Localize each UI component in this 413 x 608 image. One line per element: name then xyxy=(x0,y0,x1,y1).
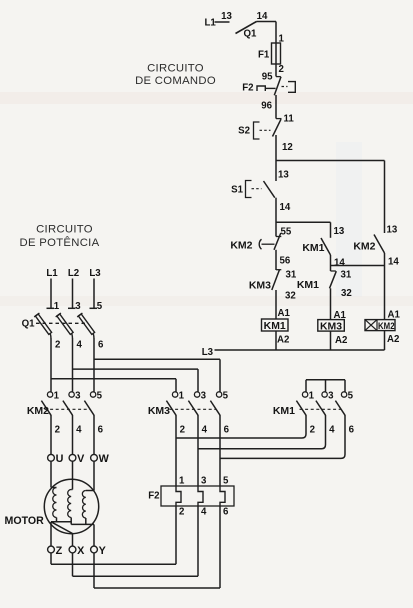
svg-text:32: 32 xyxy=(341,288,352,299)
svg-text:11: 11 xyxy=(284,114,295,125)
svg-text:13: 13 xyxy=(278,170,289,181)
svg-text:13: 13 xyxy=(334,226,345,237)
svg-text:5: 5 xyxy=(97,391,103,402)
svg-text:3: 3 xyxy=(75,301,81,312)
svg-text:KM3: KM3 xyxy=(148,405,170,417)
svg-text:14: 14 xyxy=(280,202,291,213)
svg-text:KM2: KM2 xyxy=(27,405,49,417)
svg-text:L3: L3 xyxy=(89,268,101,279)
svg-text:V: V xyxy=(77,453,85,465)
svg-text:4: 4 xyxy=(201,507,207,518)
svg-text:1: 1 xyxy=(179,476,185,487)
svg-text:2: 2 xyxy=(279,64,284,75)
svg-text:4: 4 xyxy=(76,425,82,436)
svg-text:56: 56 xyxy=(280,256,291,267)
svg-text:96: 96 xyxy=(261,101,272,112)
svg-text:4: 4 xyxy=(202,425,208,436)
svg-text:1: 1 xyxy=(54,391,60,402)
svg-text:A1: A1 xyxy=(388,310,401,321)
svg-text:1: 1 xyxy=(179,391,185,402)
svg-text:X: X xyxy=(77,545,85,557)
svg-text:5: 5 xyxy=(348,391,354,402)
svg-text:A1: A1 xyxy=(278,308,291,319)
svg-text:L3: L3 xyxy=(202,347,214,358)
svg-text:12: 12 xyxy=(282,142,293,153)
svg-text:6: 6 xyxy=(224,425,230,436)
svg-text:6: 6 xyxy=(349,425,355,436)
svg-text:14: 14 xyxy=(388,257,399,268)
svg-text:2: 2 xyxy=(55,340,60,351)
svg-text:CIRCUITO: CIRCUITO xyxy=(36,224,93,236)
svg-text:A2: A2 xyxy=(335,335,347,346)
svg-text:14: 14 xyxy=(334,258,345,269)
svg-text:5: 5 xyxy=(97,301,103,312)
svg-text:S2: S2 xyxy=(238,126,250,137)
svg-text:6: 6 xyxy=(98,425,104,436)
svg-text:F1: F1 xyxy=(258,50,270,61)
svg-text:MOTOR: MOTOR xyxy=(5,515,45,527)
svg-text:KM2: KM2 xyxy=(378,321,395,331)
svg-text:4: 4 xyxy=(77,340,83,351)
svg-text:L1: L1 xyxy=(205,18,217,29)
svg-text:13: 13 xyxy=(221,11,232,22)
svg-text:14: 14 xyxy=(257,11,268,22)
svg-text:32: 32 xyxy=(285,291,296,302)
svg-text:DE COMANDO: DE COMANDO xyxy=(135,75,216,87)
svg-text:KM2: KM2 xyxy=(230,240,252,252)
svg-text:13: 13 xyxy=(387,225,398,236)
svg-text:KM1: KM1 xyxy=(264,321,287,332)
svg-text:L2: L2 xyxy=(68,268,79,279)
svg-text:KM1: KM1 xyxy=(273,405,295,417)
svg-text:95: 95 xyxy=(262,72,273,83)
svg-text:F2: F2 xyxy=(148,491,159,502)
svg-text:DE POTÊNCIA: DE POTÊNCIA xyxy=(20,236,100,249)
svg-text:3: 3 xyxy=(201,476,207,487)
svg-text:2: 2 xyxy=(55,425,60,436)
svg-text:F2: F2 xyxy=(242,83,253,94)
svg-text:U: U xyxy=(56,453,64,465)
svg-text:5: 5 xyxy=(223,476,229,487)
svg-text:Q1: Q1 xyxy=(244,29,258,40)
svg-text:1: 1 xyxy=(54,301,60,312)
svg-text:Y: Y xyxy=(99,545,107,557)
svg-text:KM1: KM1 xyxy=(297,279,319,291)
svg-text:5: 5 xyxy=(223,391,229,402)
svg-text:S1: S1 xyxy=(231,185,243,196)
svg-text:2: 2 xyxy=(179,507,184,518)
svg-text:KM3: KM3 xyxy=(249,280,271,292)
svg-text:3: 3 xyxy=(328,391,334,402)
svg-text:1: 1 xyxy=(309,391,315,402)
svg-text:Q1: Q1 xyxy=(22,319,36,330)
svg-text:Z: Z xyxy=(56,545,63,557)
svg-text:6: 6 xyxy=(98,340,104,351)
svg-text:A2: A2 xyxy=(277,335,289,346)
svg-text:W: W xyxy=(99,453,110,465)
svg-text:3: 3 xyxy=(201,391,207,402)
svg-text:KM3: KM3 xyxy=(320,321,343,332)
svg-text:KM1: KM1 xyxy=(302,242,324,254)
svg-text:CIRCUITO: CIRCUITO xyxy=(147,63,204,75)
svg-text:KM2: KM2 xyxy=(353,241,375,253)
svg-text:2: 2 xyxy=(310,425,315,436)
svg-text:A2: A2 xyxy=(387,334,399,345)
svg-text:31: 31 xyxy=(286,270,297,281)
svg-text:6: 6 xyxy=(223,507,229,518)
svg-text:3: 3 xyxy=(75,391,81,402)
svg-text:2: 2 xyxy=(180,425,185,436)
svg-text:4: 4 xyxy=(329,425,335,436)
svg-text:31: 31 xyxy=(341,270,352,281)
svg-text:L1: L1 xyxy=(46,268,58,279)
svg-text:55: 55 xyxy=(281,227,292,238)
